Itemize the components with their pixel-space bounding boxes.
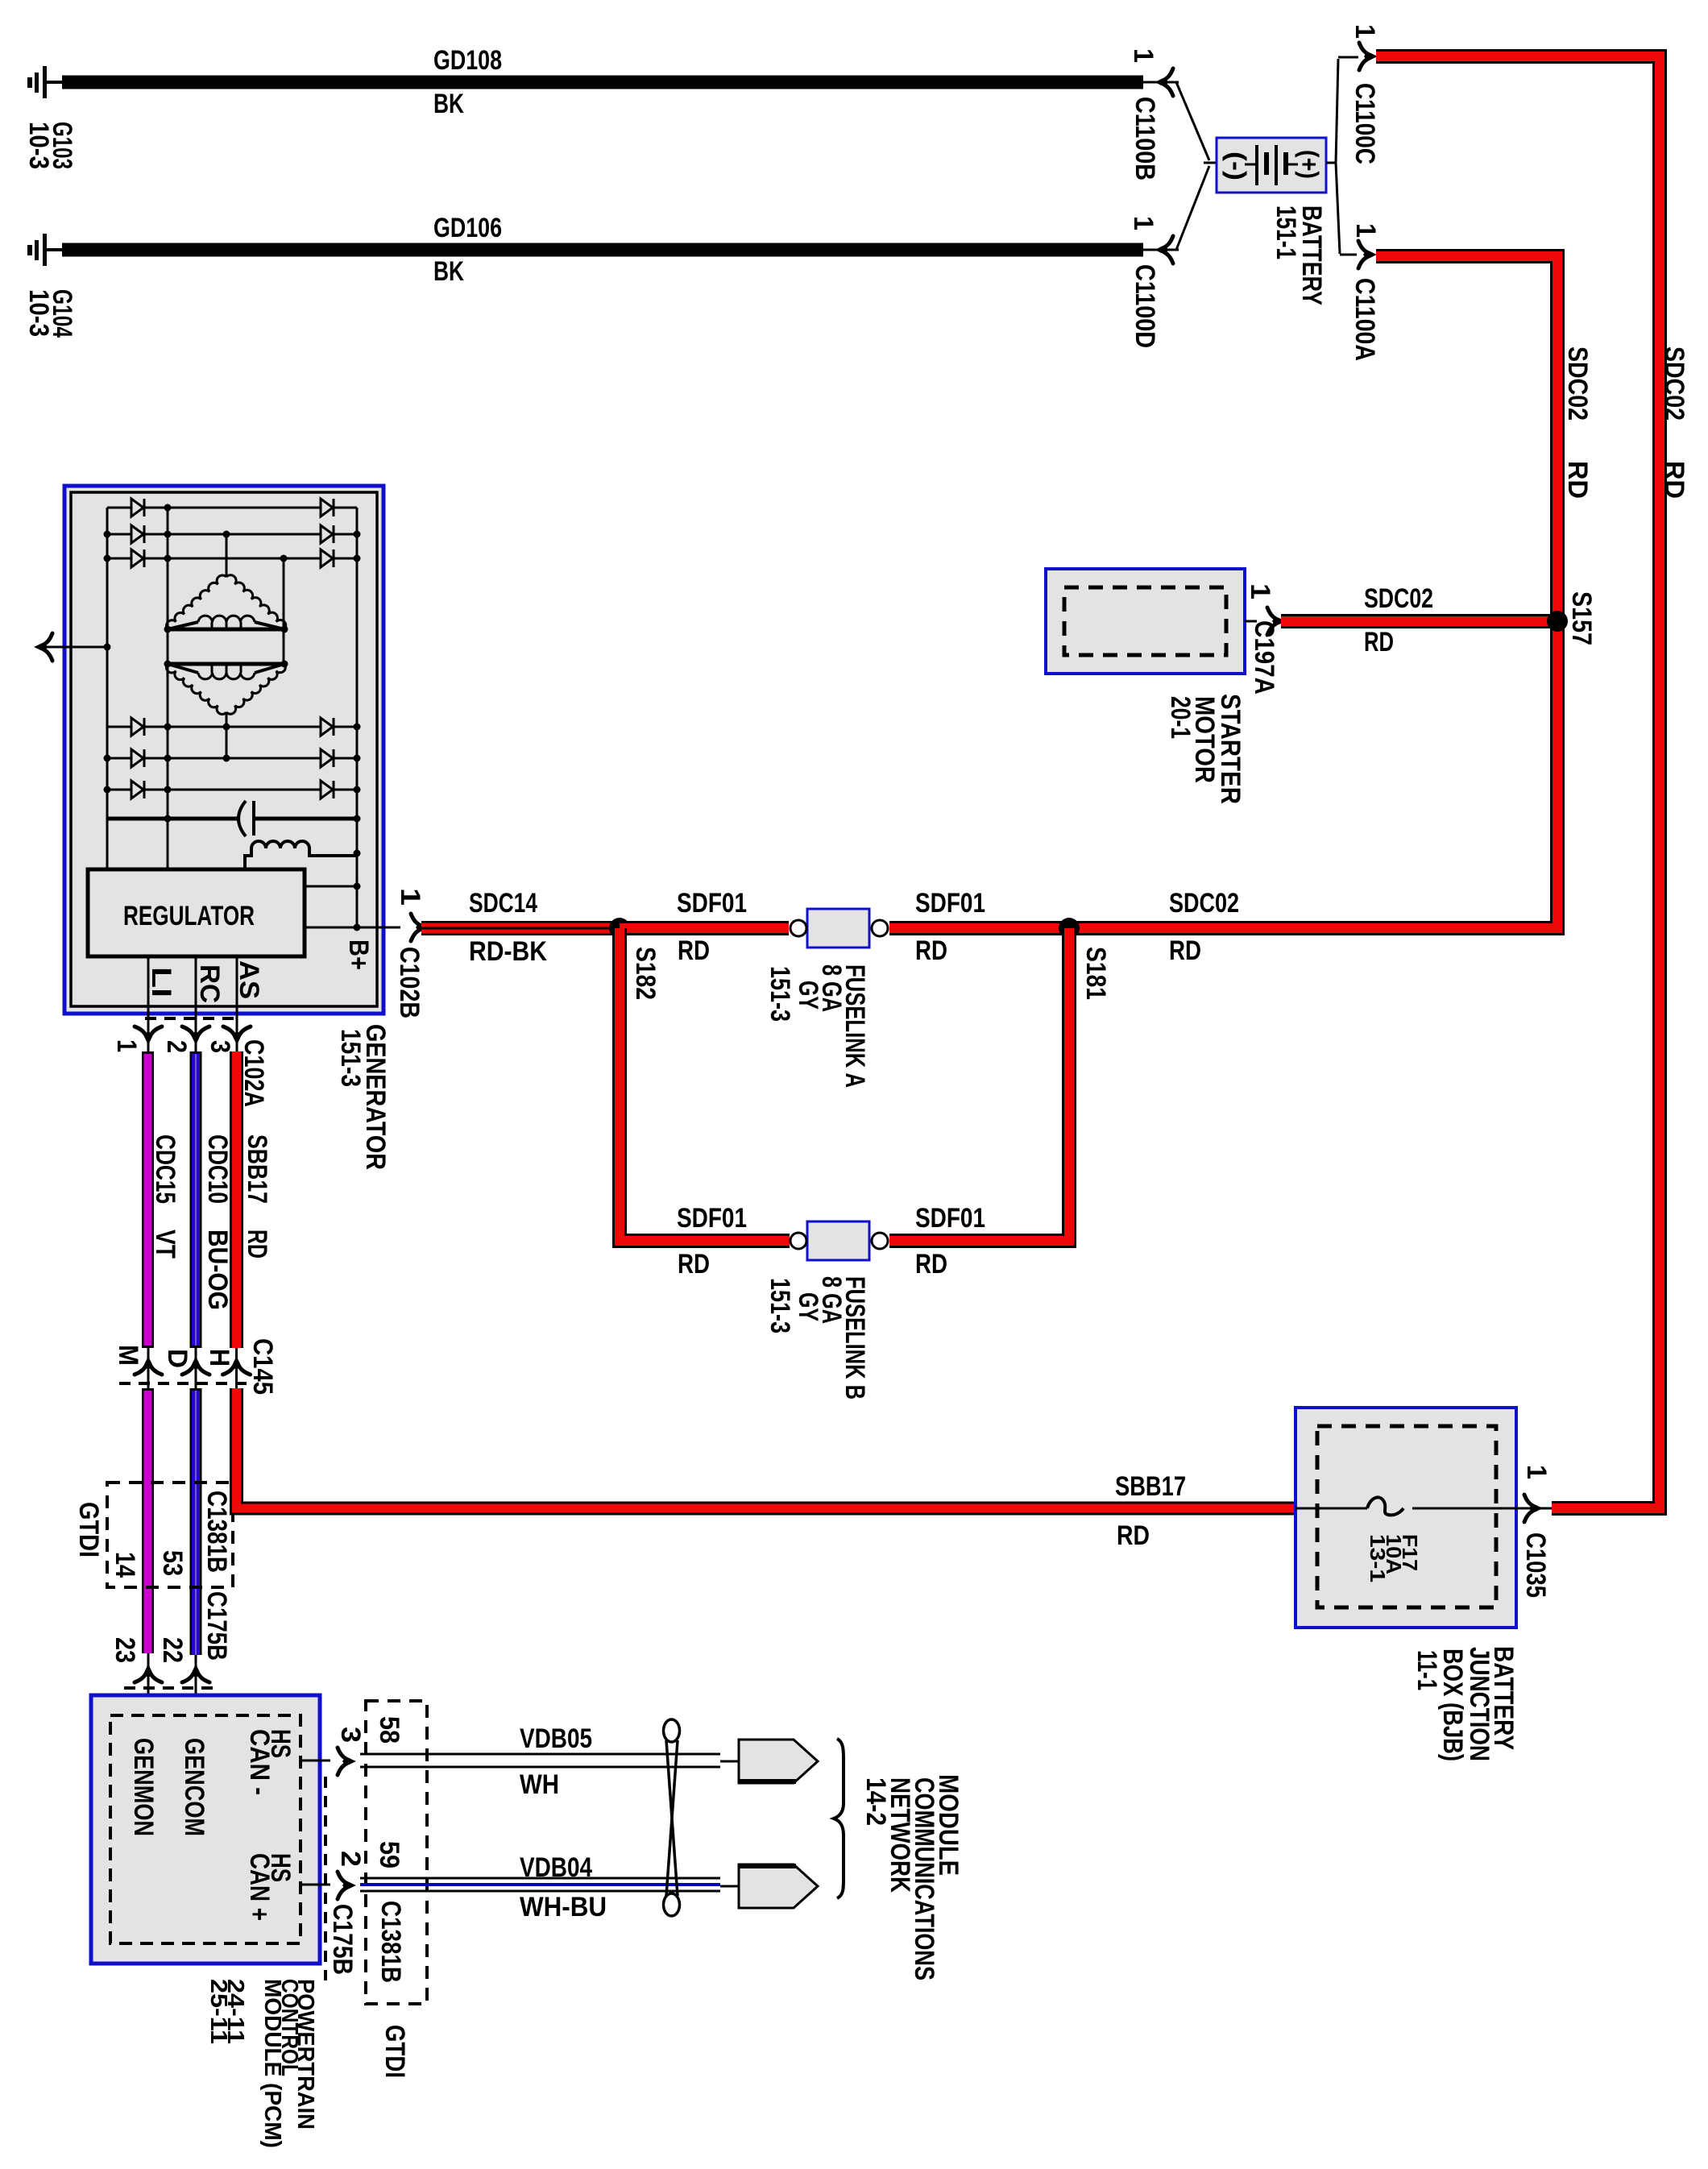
connector C175B arrows (pins 23 22) xyxy=(147,1653,150,1715)
inductor L (field coil) xyxy=(245,848,251,869)
svg-text:SDF01: SDF01 xyxy=(915,1203,985,1234)
svg-text:151-3: 151-3 xyxy=(765,1278,795,1333)
brace xyxy=(834,1739,844,1898)
svg-text:SDC02: SDC02 xyxy=(1562,346,1593,421)
svg-text:SDC02: SDC02 xyxy=(1169,888,1239,919)
svg-text:RD: RD xyxy=(915,935,947,966)
svg-text:25-11: 25-11 xyxy=(205,1979,231,2044)
wire B+ output xyxy=(305,927,357,929)
svg-text:3: 3 xyxy=(205,1040,235,1053)
svg-text:58: 58 xyxy=(374,1716,404,1744)
svg-text:13-1: 13-1 xyxy=(1366,1534,1390,1582)
connector C145 dashed line xyxy=(119,1382,251,1385)
junction S182 xyxy=(609,918,630,939)
wire GD108 BK xyxy=(62,76,1143,89)
generator box xyxy=(64,486,383,1014)
svg-text:C175B: C175B xyxy=(327,1904,358,1975)
connector C1100C arrow xyxy=(1359,43,1378,70)
svg-text:D: D xyxy=(162,1349,193,1368)
svg-text:10-3: 10-3 xyxy=(23,289,54,337)
svg-text:B+: B+ xyxy=(343,939,374,970)
svg-text:C145: C145 xyxy=(247,1338,278,1395)
wire SDC14 RD-BK xyxy=(421,921,620,935)
connector C1100B arrow xyxy=(1143,81,1179,84)
svg-text:SDF01: SDF01 xyxy=(915,888,985,919)
svg-text:CAN +: CAN + xyxy=(244,1853,275,1921)
svg-text:RD: RD xyxy=(242,1230,272,1259)
svg-text:C1100A: C1100A xyxy=(1349,278,1380,361)
connector C1035 arrow xyxy=(1524,1495,1543,1522)
svg-text:VDB04: VDB04 xyxy=(520,1852,592,1883)
svg-text:11-1: 11-1 xyxy=(1412,1650,1442,1690)
wire battery negative leads xyxy=(1176,82,1209,160)
connector C102A arrows xyxy=(135,1026,162,1045)
svg-text:S157: S157 xyxy=(1566,591,1597,645)
GTDI dashed box (inline) xyxy=(107,1483,233,1587)
svg-text:53: 53 xyxy=(157,1550,188,1576)
svg-text:GENCOM: GENCOM xyxy=(179,1738,209,1836)
fuselink A xyxy=(807,909,869,948)
GTDI dashed box (PCM side) xyxy=(366,1701,427,2004)
wire VDB04 WH-BU pair xyxy=(360,1877,720,1880)
svg-text:SDC14: SDC14 xyxy=(469,888,537,919)
twisted pair symbol xyxy=(664,1719,680,1742)
wire generator right bus xyxy=(356,508,359,928)
connector C145 arrows xyxy=(147,1348,150,1388)
connector C175B dashed line xyxy=(124,1686,213,1690)
svg-text:1: 1 xyxy=(1128,216,1159,230)
diode row y663 with left diode D3 and right diode D4 xyxy=(107,533,131,536)
svg-text:BK: BK xyxy=(433,89,464,119)
svg-text:H: H xyxy=(204,1349,234,1367)
connector C197A arrow xyxy=(1245,620,1257,623)
pin 2 lead HS CAN+ xyxy=(301,1884,330,1886)
svg-text:1: 1 xyxy=(1245,583,1275,599)
svg-text:S182: S182 xyxy=(630,947,661,1000)
diode row y902 with left diode D7 and right diode D8 xyxy=(107,726,131,728)
wire SDF01 RD (S182 to fuselink A) xyxy=(620,921,789,935)
capacitor C (suppression) xyxy=(107,817,238,821)
svg-text:MODULE (PCM): MODULE (PCM) xyxy=(259,1979,285,2148)
wire battery positive leads xyxy=(1326,162,1336,164)
connector C175B dashed line (right) xyxy=(324,1777,327,1980)
svg-text:C1100C: C1100C xyxy=(1349,83,1380,164)
wire regulator aux xyxy=(305,885,357,888)
junction S181 xyxy=(1059,918,1080,939)
svg-text:GENMON: GENMON xyxy=(128,1738,159,1836)
connector C102A dashed line xyxy=(145,1017,242,1020)
svg-text:RD: RD xyxy=(915,1249,947,1279)
svg-text:SDC02: SDC02 xyxy=(1659,346,1689,421)
wire wye winding stem xyxy=(226,712,228,758)
svg-text:RC: RC xyxy=(194,964,225,1003)
connector C102B arrow xyxy=(411,914,429,941)
svg-text:2: 2 xyxy=(335,1851,366,1867)
svg-text:151-3: 151-3 xyxy=(765,966,795,1022)
svg-text:BU-OG: BU-OG xyxy=(202,1230,233,1310)
svg-text:CAN -: CAN - xyxy=(244,1729,275,1795)
svg-text:REGULATOR: REGULATOR xyxy=(123,901,255,931)
svg-text:1: 1 xyxy=(395,888,425,906)
svg-text:SDC02: SDC02 xyxy=(1364,583,1433,614)
svg-text:1: 1 xyxy=(1349,24,1380,39)
connector C1100A arrow xyxy=(1358,241,1377,268)
PCM box xyxy=(91,1695,320,1964)
svg-text:GY: GY xyxy=(793,1292,823,1321)
svg-text:CDC10: CDC10 xyxy=(202,1134,233,1204)
svg-text:SBB17: SBB17 xyxy=(1115,1471,1186,1502)
svg-text:22: 22 xyxy=(157,1637,188,1663)
svg-text:151-1: 151-1 xyxy=(1271,205,1301,259)
stator wye winding xyxy=(168,662,284,666)
wire generator mid bus xyxy=(167,508,169,869)
wire SDC02 RD (battery C1100A to S181) xyxy=(889,256,1557,928)
svg-text:SBB17: SBB17 xyxy=(242,1134,272,1204)
ground G103 xyxy=(43,66,47,98)
diode row y693 with left diode D5 and right diode D6 xyxy=(107,558,131,560)
svg-text:VT: VT xyxy=(150,1230,180,1259)
svg-text:C175B: C175B xyxy=(201,1591,232,1661)
diode row y980 with left diode D11 and right diode D12 xyxy=(107,789,131,791)
svg-text:GTDI: GTDI xyxy=(73,1502,104,1557)
svg-text:59: 59 xyxy=(374,1841,404,1868)
svg-text:GTDI: GTDI xyxy=(379,2025,410,2078)
svg-text:GD106: GD106 xyxy=(433,213,502,243)
svg-text:CDC15: CDC15 xyxy=(150,1134,180,1204)
svg-text:(+): (+) xyxy=(1295,150,1324,179)
svg-text:1: 1 xyxy=(111,1039,142,1052)
diode row y941 with left diode D9 and right diode D10 xyxy=(107,757,131,760)
wire SDF01 RD branch (S182 down to fuselink B) xyxy=(620,928,790,1241)
svg-text:RD: RD xyxy=(1562,461,1593,499)
svg-text:3: 3 xyxy=(335,1727,366,1743)
wire CDC10 BU-OG xyxy=(190,1051,202,1655)
svg-text:WH: WH xyxy=(520,1769,559,1800)
wire SDF01 RD (fuselink B to S181) xyxy=(889,928,1069,1241)
svg-text:RD: RD xyxy=(1364,627,1394,657)
svg-text:1: 1 xyxy=(1521,1465,1552,1479)
starter motor box xyxy=(1046,569,1245,674)
svg-text:M: M xyxy=(113,1345,143,1366)
battery BATTERY 151-1 xyxy=(1217,138,1326,193)
wire generator delta feed xyxy=(226,534,228,577)
stator delta winding xyxy=(167,575,226,629)
svg-text:C197A: C197A xyxy=(1249,620,1279,695)
fuse F17 10A xyxy=(1296,1508,1367,1510)
junction S157 xyxy=(1547,611,1568,632)
svg-text:C1100D: C1100D xyxy=(1130,264,1160,348)
wire generator left bus xyxy=(106,508,109,869)
svg-text:23: 23 xyxy=(110,1637,140,1663)
svg-text:RD: RD xyxy=(678,1249,710,1279)
pin RC lead xyxy=(195,956,197,1051)
ground G104 xyxy=(43,234,47,266)
wire SDC02 RD (battery C1100C to BJB) xyxy=(1376,56,1660,1508)
svg-text:(-): (-) xyxy=(1222,151,1251,180)
svg-text:RD: RD xyxy=(1117,1520,1150,1551)
wire SDC02 RD (starter branch) xyxy=(1281,614,1550,628)
svg-text:S181: S181 xyxy=(1080,947,1111,1000)
svg-text:C1035: C1035 xyxy=(1520,1532,1551,1598)
svg-text:C1381B: C1381B xyxy=(375,1901,406,1983)
svg-text:AS: AS xyxy=(234,960,264,999)
svg-text:SDF01: SDF01 xyxy=(677,1203,747,1234)
svg-text:14-2: 14-2 xyxy=(860,1777,891,1826)
svg-text:BK: BK xyxy=(433,256,464,287)
svg-text:SDF01: SDF01 xyxy=(677,888,747,919)
fuselink B xyxy=(807,1221,869,1260)
svg-text:RD: RD xyxy=(1659,461,1689,499)
svg-text:VDB05: VDB05 xyxy=(520,1723,592,1754)
svg-text:LI: LI xyxy=(146,967,176,997)
svg-text:1: 1 xyxy=(1350,223,1381,238)
svg-text:GD108: GD108 xyxy=(433,45,502,76)
svg-text:RD: RD xyxy=(678,935,710,966)
wire SBB17 RD (vertical + to BJB) xyxy=(237,1051,1296,1508)
network connector pentagon (VDB05) xyxy=(739,1740,818,1783)
generator case lead xyxy=(42,646,107,649)
wire VDB05 WH pair xyxy=(360,1753,720,1756)
battery junction box xyxy=(1296,1408,1516,1628)
svg-text:RD-BK: RD-BK xyxy=(469,936,547,967)
regulator U1 box xyxy=(88,869,305,956)
svg-text:20-1: 20-1 xyxy=(1165,696,1196,739)
generator junction dots xyxy=(164,504,172,512)
svg-text:WH-BU: WH-BU xyxy=(520,1892,607,1922)
pin 3 lead HS CAN- xyxy=(301,1760,330,1762)
svg-text:2: 2 xyxy=(161,1040,192,1053)
svg-text:C1381B: C1381B xyxy=(201,1491,232,1573)
svg-text:10-3: 10-3 xyxy=(23,122,54,169)
wire generator bus x352 xyxy=(283,558,285,666)
pin LI lead xyxy=(147,956,150,1051)
network connector pentagon (VDB04) xyxy=(739,1864,818,1908)
svg-text:C102B: C102B xyxy=(394,947,425,1018)
wire CDC15 VT xyxy=(142,1051,154,1653)
diode row y630 with left diode D1 and right diode D2 xyxy=(107,507,131,509)
svg-text:C1100B: C1100B xyxy=(1130,97,1160,180)
svg-text:GY: GY xyxy=(793,981,823,1010)
connector C1100D arrow xyxy=(1143,249,1179,251)
svg-text:RD: RD xyxy=(1169,935,1201,966)
svg-text:14: 14 xyxy=(110,1552,140,1578)
pin AS lead xyxy=(236,956,238,1051)
svg-text:151-3: 151-3 xyxy=(335,1029,366,1087)
svg-text:1: 1 xyxy=(1128,48,1159,63)
wire GD106 BK xyxy=(62,243,1143,257)
